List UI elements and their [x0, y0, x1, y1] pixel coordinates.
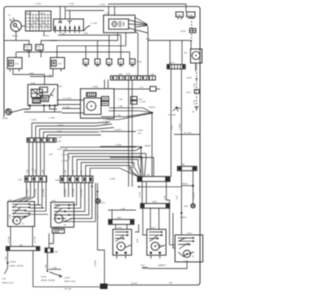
- svg-text:2H08: 2H08: [187, 77, 193, 79]
- svg-text:4 5GN: 4 5GN: [57, 125, 64, 127]
- svg-text:1 5B: 1 5B: [45, 264, 47, 269]
- svg-text:1 5G: 1 5G: [35, 169, 37, 174]
- svg-text:1 1.5R: 1 1.5R: [91, 23, 98, 25]
- svg-text:240: 240: [58, 141, 62, 143]
- svg-text:8 1.5GN: 8 1.5GN: [63, 98, 72, 100]
- svg-text:1 4R: 1 4R: [118, 106, 123, 108]
- svg-text:4 5R: 4 5R: [57, 137, 62, 139]
- svg-text:24/34: 24/34: [138, 130, 144, 132]
- svg-text:9F: 9F: [192, 112, 195, 114]
- svg-text:14B: 14B: [107, 62, 111, 64]
- svg-text:31/5B: 31/5B: [2, 118, 8, 120]
- svg-text:(RH/D 41/7): (RH/D 41/7): [2, 282, 14, 284]
- svg-text:4 1.5GN: 4 1.5GN: [27, 188, 29, 197]
- svg-text:100: 100: [58, 64, 62, 66]
- svg-text:5TR-AB: 5TR-AB: [168, 113, 176, 116]
- svg-text:2/38: 2/38: [84, 33, 89, 35]
- svg-text:1 2TB: 1 2TB: [126, 168, 132, 170]
- svg-text:1 4R: 1 4R: [139, 155, 141, 160]
- svg-text:1 5B: 1 5B: [65, 169, 67, 174]
- svg-text:23H01: 23H01: [180, 217, 187, 219]
- svg-text:1 4TB: 1 4TB: [35, 4, 41, 6]
- svg-text:14B: 14B: [84, 62, 88, 64]
- svg-text:1 5B: 1 5B: [6, 256, 8, 261]
- svg-text:9/9: 9/9: [184, 53, 188, 55]
- svg-text:4 5B: 4 5B: [57, 131, 62, 133]
- svg-text:(RH/D 22H08): (RH/D 22H08): [41, 280, 55, 282]
- svg-text:Tand: Tand: [40, 13, 46, 15]
- svg-text:1 4R: 1 4R: [103, 119, 108, 121]
- svg-text:(RH/D 31F): (RH/D 31F): [64, 281, 75, 283]
- svg-text:1 5B: 1 5B: [48, 154, 53, 156]
- svg-text:RANR P: RANR P: [158, 264, 167, 267]
- svg-text:18 GN: 18 GN: [131, 283, 138, 285]
- svg-text:11An: 11An: [177, 14, 183, 17]
- svg-text:1 4R: 1 4R: [118, 99, 123, 101]
- svg-text:14B: 14B: [119, 62, 123, 64]
- svg-text:31/5: 31/5: [101, 202, 106, 204]
- svg-text:1 5Y: 1 5Y: [32, 167, 34, 172]
- svg-text:4 1.5RB: 4 1.5RB: [81, 189, 83, 197]
- svg-text:267: 267: [169, 282, 173, 284]
- svg-text:4 1.5GB: 4 1.5GB: [73, 188, 75, 197]
- svg-text:1 5B: 1 5B: [27, 169, 29, 174]
- svg-text:1 4R: 1 4R: [103, 123, 108, 125]
- svg-text:1 5R: 1 5R: [43, 169, 45, 174]
- svg-text:22H06: 22H06: [10, 262, 17, 264]
- svg-text:23H08: 23H08: [144, 145, 151, 147]
- svg-text:4 1.5GN: 4 1.5GN: [65, 188, 67, 197]
- svg-text:2/57: 2/57: [2, 279, 7, 281]
- svg-text:94TB: 94TB: [181, 31, 187, 33]
- svg-text:1 1.5G: 1 1.5G: [61, 155, 68, 157]
- svg-text:1 4SB: 1 4SB: [92, 87, 98, 89]
- svg-text:4 1.5R: 4 1.5R: [34, 236, 36, 243]
- svg-text:240: 240: [18, 179, 22, 181]
- svg-text:4 1.5RB: 4 1.5RB: [43, 189, 45, 197]
- svg-text:14B: 14B: [95, 62, 99, 64]
- svg-text:23H06: 23H06: [149, 107, 156, 109]
- svg-text:1 4Y: 1 4Y: [171, 125, 173, 130]
- svg-text:1 4Y: 1 4Y: [165, 195, 167, 200]
- svg-text:2 4T: 2 4T: [139, 87, 144, 89]
- svg-text:1 1.5R: 1 1.5R: [61, 161, 68, 163]
- svg-text:100: 100: [15, 64, 19, 66]
- svg-text:10 R: 10 R: [137, 238, 139, 243]
- svg-text:150: 150: [138, 133, 142, 135]
- svg-text:14/3: 14/3: [126, 74, 131, 76]
- svg-text:2 4Y/R: 2 4Y/R: [95, 260, 97, 267]
- svg-text:1 4TD: 1 4TD: [99, 4, 105, 6]
- svg-text:1 4Y: 1 4Y: [177, 195, 179, 200]
- svg-text:1 4GB: 1 4GB: [115, 144, 122, 146]
- svg-text:9 Y: 9 Y: [96, 192, 98, 196]
- svg-text:84TB: 84TB: [41, 276, 47, 278]
- svg-text:11GB: 11GB: [187, 15, 193, 17]
- svg-text:1 5R: 1 5R: [81, 169, 83, 174]
- svg-text:14B: 14B: [130, 62, 134, 64]
- svg-text:49F: 49F: [184, 206, 188, 208]
- svg-text:4 SB: 4 SB: [9, 214, 11, 219]
- svg-text:24B: 24B: [55, 180, 59, 182]
- svg-text:1 2TB: 1 2TB: [140, 192, 142, 198]
- svg-text:4 1.5B: 4 1.5B: [8, 236, 10, 243]
- svg-text:1 4GB: 1 4GB: [30, 120, 37, 122]
- svg-text:M: M: [64, 224, 66, 226]
- svg-text:4 1.5GB: 4 1.5GB: [35, 188, 37, 197]
- svg-text:2413: 2413: [186, 92, 192, 94]
- svg-text:8 1.5B: 8 1.5B: [63, 107, 70, 109]
- svg-text:M: M: [22, 224, 24, 226]
- svg-text:1 4Y/R: 1 4Y/R: [180, 123, 182, 130]
- svg-text:24B: 24B: [54, 251, 58, 253]
- svg-text:1 4TD: 1 4TD: [43, 36, 49, 38]
- svg-text:1 4GB: 1 4GB: [49, 118, 56, 120]
- svg-text:4 6B: 4 6B: [24, 109, 29, 111]
- svg-text:(RH/D 22H06): (RH/D 22H06): [10, 265, 24, 267]
- svg-text:14/1: 14/1: [58, 86, 63, 88]
- svg-text:23H08: 23H08: [181, 184, 188, 186]
- svg-text:L 4Y: L 4Y: [184, 260, 189, 262]
- svg-text:2 4GB: 2 4GB: [109, 179, 116, 181]
- svg-text:1 9R: 1 9R: [194, 100, 196, 105]
- svg-text:1 1.5B: 1 1.5B: [61, 149, 68, 151]
- svg-text:2/4TB: 2/4TB: [64, 277, 70, 279]
- svg-text:1 4TB: 1 4TB: [68, 4, 74, 6]
- svg-text:9 Y: 9 Y: [98, 214, 100, 218]
- svg-text:74G8: 74G8: [136, 62, 142, 64]
- svg-text:1 9R: 1 9R: [194, 83, 196, 88]
- svg-text:1 5Y: 1 5Y: [69, 155, 71, 160]
- svg-text:M: M: [192, 256, 194, 258]
- svg-text:1 4Y/R: 1 4Y/R: [194, 192, 196, 199]
- svg-text:1 4R: 1 4R: [116, 115, 121, 117]
- svg-text:37: 37: [8, 15, 11, 17]
- svg-text:1 4 5R: 1 4 5R: [139, 102, 146, 104]
- svg-text:1 5G: 1 5G: [73, 169, 75, 174]
- svg-text:31/5: 31/5: [141, 265, 146, 267]
- svg-text:241 5A: 241 5A: [64, 287, 71, 290]
- svg-text:1A 1.5: 1A 1.5: [12, 35, 19, 38]
